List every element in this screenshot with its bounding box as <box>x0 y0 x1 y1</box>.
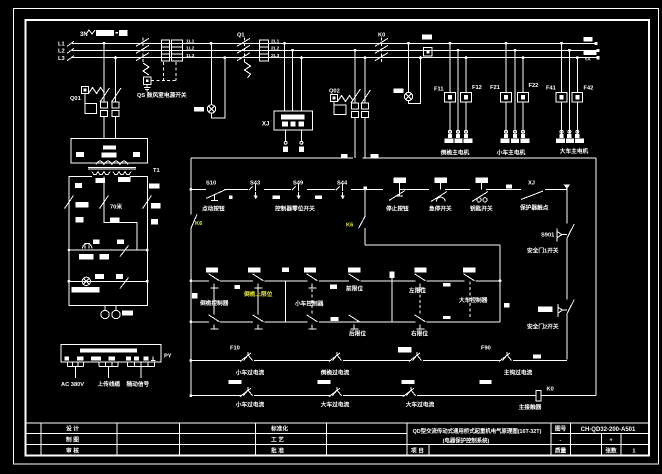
svg-text:XJ: XJ <box>262 122 269 128</box>
svg-text:F10: F10 <box>230 346 240 352</box>
svg-text:T1: T1 <box>153 168 160 174</box>
svg-text:F90: F90 <box>481 346 491 352</box>
Q02 coil box <box>331 95 338 102</box>
band left rail junctions <box>190 279 193 282</box>
control enclosure right rail <box>595 158 597 395</box>
svg-text:大车过电流: 大车过电流 <box>321 401 350 409</box>
POWERSECTION <box>58 30 600 157</box>
long label under lamp rail <box>72 287 100 293</box>
rail top tick <box>564 185 570 189</box>
svg-text:制 图: 制 图 <box>66 436 79 444</box>
svg-text:后限位: 后限位 <box>349 330 366 338</box>
T1 secondary windings <box>92 172 110 175</box>
fuse group FU2 <box>260 40 269 61</box>
emergency stop switch <box>435 178 448 184</box>
band switch pair x355 <box>348 267 360 329</box>
PY terminal comb 2 <box>99 362 118 378</box>
title block horizontal lines <box>26 423 650 445</box>
control enclosure top edge <box>191 157 596 159</box>
svg-text:保护器触点: 保护器触点 <box>519 204 549 212</box>
svg-text:图号: 图号 <box>555 425 567 433</box>
svg-text:S49: S49 <box>293 181 303 187</box>
overload relay F11 <box>445 93 456 102</box>
Q01 wires <box>104 43 116 138</box>
overload row B line <box>191 395 536 397</box>
svg-text:70米: 70米 <box>110 203 122 211</box>
meter box on line L2 <box>424 47 433 56</box>
controller unit PY box <box>61 345 161 363</box>
CONTROLSECTION <box>190 158 597 395</box>
svg-text:1L2: 1L2 <box>186 46 195 52</box>
svg-text:倒桅控制器: 倒桅控制器 <box>199 299 229 307</box>
svg-text:F42: F42 <box>584 86 594 92</box>
Q02 pole chevrons <box>352 103 369 118</box>
thermal contact A2 <box>329 352 342 362</box>
band switch pair x313 <box>304 267 318 329</box>
Q02 wires <box>355 50 365 158</box>
overload relay F22 <box>518 93 529 102</box>
ladder rung line <box>191 188 567 190</box>
transformer T1 primary <box>96 161 128 165</box>
mid branch jog wire <box>104 209 137 251</box>
safety door switch 2 <box>538 307 553 313</box>
overload relay F12 <box>461 93 472 102</box>
Q01 pole chevrons <box>101 102 120 117</box>
BOTTOMROWS <box>190 346 597 411</box>
svg-text:2L3: 2L3 <box>271 53 280 59</box>
band divider 3 <box>499 245 501 322</box>
svg-text:2L2: 2L2 <box>271 46 280 52</box>
QS linkage dashed <box>142 38 144 64</box>
svg-text:Q01: Q01 <box>70 96 81 102</box>
band small marker rects <box>192 293 198 298</box>
svg-text:L1: L1 <box>58 42 65 48</box>
svg-text:Q02: Q02 <box>329 89 340 95</box>
branch labels top <box>96 178 105 183</box>
svg-text:L2: L2 <box>58 49 65 55</box>
Q1 linkage dashed <box>244 38 246 63</box>
svg-text:倒桅过电流: 倒桅过电流 <box>320 369 350 377</box>
dashed link QS to fuses <box>151 62 177 81</box>
svg-text:大车过电流: 大车过电流 <box>406 401 435 409</box>
svg-text:S43: S43 <box>250 181 260 187</box>
phase line L3 <box>67 56 598 61</box>
svg-text:K0: K0 <box>378 33 385 39</box>
thermal contact A3 <box>409 352 422 362</box>
thermal contact B2 <box>329 387 342 397</box>
branch 2 terminals <box>500 130 529 143</box>
thermal contact A1 <box>240 352 253 362</box>
svg-text:控制器零位开关: 控制器零位开关 <box>275 205 315 213</box>
lighting circuit box top <box>69 177 147 306</box>
overload row A line <box>191 360 567 362</box>
svg-text:质量: 质量 <box>555 446 567 454</box>
Q01 coil box <box>82 87 89 94</box>
svg-text:项 目: 项 目 <box>411 446 424 454</box>
svg-text:CH-QD32-200-A501: CH-QD32-200-A501 <box>581 427 636 433</box>
svg-text:小车过电流: 小车过电流 <box>235 401 265 409</box>
relay contact K6 left <box>191 215 197 229</box>
title block vertical dividers <box>41 423 621 456</box>
svg-text:上传线缆: 上传线缆 <box>98 380 121 388</box>
svg-text:主钩过电流: 主钩过电流 <box>504 369 533 377</box>
lamp E1 <box>82 277 90 285</box>
PY terminal squares <box>64 357 148 361</box>
svg-text:K6: K6 <box>195 221 202 227</box>
Q02 spring <box>338 96 354 102</box>
label rect <box>315 196 322 199</box>
thermal contact B3 <box>403 387 416 397</box>
band divider 1 <box>285 281 287 322</box>
breaker Q1 blades <box>237 38 250 60</box>
PY ground pin <box>151 357 156 361</box>
thermal contact A4 <box>499 352 512 362</box>
svg-text:钥匙开关: 钥匙开关 <box>470 205 493 213</box>
control enclosure left rail <box>190 158 192 395</box>
svg-text:急停开关: 急停开关 <box>429 205 452 213</box>
disconnect switch QS blades <box>136 38 149 60</box>
svg-text:1: 1 <box>632 448 635 454</box>
svg-text:Q1: Q1 <box>237 33 245 39</box>
svg-text:AC 380V: AC 380V <box>61 382 84 388</box>
svg-text:1L1: 1L1 <box>186 39 195 45</box>
svg-text:审 核: 审 核 <box>66 446 79 454</box>
band switch pair x259 <box>248 267 264 329</box>
mid drop with K6 contact <box>359 189 500 244</box>
Q01 blades <box>100 88 121 102</box>
limit band bottom rail <box>191 321 500 323</box>
svg-text:S10: S10 <box>206 181 216 187</box>
svg-text:随动信号: 随动信号 <box>127 380 150 388</box>
row B label rects <box>229 380 242 384</box>
svg-text:PY: PY <box>164 354 172 360</box>
key switch <box>476 178 489 184</box>
overload relay F41 <box>556 93 567 102</box>
indicator lamp H1 left <box>194 43 225 118</box>
svg-text:标准化: 标准化 <box>270 425 288 433</box>
svg-text:(电器保护控制系统): (电器保护控制系统) <box>443 436 490 444</box>
junction dots on phase lines <box>103 42 600 60</box>
svg-text:批 准: 批 准 <box>271 446 284 454</box>
svg-text:停止按钮: 停止按钮 <box>386 205 409 213</box>
svg-text:QS 鼓风室电源开关: QS 鼓风室电源开关 <box>137 91 187 99</box>
fuse group FU1 <box>162 40 183 61</box>
relay box F1 <box>71 139 147 164</box>
ground symbol at QS <box>144 85 151 92</box>
Q02 blades <box>351 89 371 104</box>
XJ output terminals <box>286 130 302 141</box>
svg-text:安全门2开关: 安全门2开关 <box>527 323 559 331</box>
socket outlet symbol <box>104 306 106 311</box>
PY terminal comb 1 <box>67 362 83 378</box>
phase line L2 <box>67 48 598 53</box>
XJ feed wires <box>285 43 302 111</box>
svg-text:小车过电流: 小车过电流 <box>235 369 265 377</box>
svg-text:F22: F22 <box>529 83 539 89</box>
svg-text:S901: S901 <box>541 233 554 239</box>
svg-text:点动按钮: 点动按钮 <box>202 205 225 213</box>
switch blade on mid branch <box>100 196 109 209</box>
line end labels top right <box>584 37 593 42</box>
svg-text:设 计: 设 计 <box>66 425 79 433</box>
svg-text:张数: 张数 <box>605 446 617 454</box>
phase line L1 <box>67 41 596 46</box>
indicator lamp H2 right <box>394 43 421 103</box>
stop button <box>394 178 407 184</box>
relay XJ box <box>274 111 313 130</box>
LEFTCOLUMN <box>61 43 379 388</box>
motor branch 2 wires <box>506 43 523 133</box>
switch S7 on bell rail <box>120 246 129 257</box>
branch 3 terminals <box>556 130 584 143</box>
svg-text:左限位: 左限位 <box>408 287 426 295</box>
branch 1 terminals <box>444 130 472 143</box>
svg-text:2L1: 2L1 <box>271 39 280 45</box>
wire number tags above control box edge <box>341 154 348 159</box>
contactor coil K0 <box>536 390 541 401</box>
svg-text:倒桅主电机: 倒桅主电机 <box>440 148 470 156</box>
svg-text:-: - <box>560 438 562 444</box>
QS spring release <box>143 63 149 75</box>
svg-text:倒桅上限位: 倒桅上限位 <box>243 290 273 298</box>
current meter F0 white tag <box>422 35 432 40</box>
svg-text:QD型交流传动式通用桥式起重机电气原理图(16T-32T): QD型交流传动式通用桥式起重机电气原理图(16T-32T) <box>413 427 542 435</box>
motor branch 1 wires <box>450 43 466 133</box>
TITLEBLOCK <box>26 423 650 456</box>
svg-text:小车主电机: 小车主电机 <box>496 148 526 156</box>
Q1 spring <box>245 62 251 78</box>
svg-text:工 艺: 工 艺 <box>271 436 284 444</box>
switch blade on left branch <box>65 196 74 209</box>
QS trip box <box>144 77 152 85</box>
svg-text:YA: YA <box>585 56 592 62</box>
Q02 aux linkage box <box>333 102 335 106</box>
svg-text:F12: F12 <box>472 85 482 91</box>
label rect <box>272 196 280 199</box>
T1 core <box>88 167 136 169</box>
svg-text:大车控制器: 大车控制器 <box>459 296 488 304</box>
bell rail <box>69 249 147 251</box>
svg-text:小车控制器: 小车控制器 <box>294 300 324 308</box>
labels under bell rail <box>79 254 94 260</box>
wire tag on ladder <box>506 185 512 189</box>
svg-text:主接触器: 主接触器 <box>519 403 542 411</box>
K0 wire to right rail <box>541 395 596 397</box>
band switch x470 <box>463 267 475 319</box>
band divider 2 <box>391 272 393 322</box>
svg-text:XJ: XJ <box>528 181 535 187</box>
Q01 spring linkage <box>89 88 105 94</box>
switch blade on right branch <box>143 196 152 209</box>
PY terminal comb 3 <box>128 362 155 378</box>
thermal contact B1 <box>240 387 253 397</box>
Q01 aux linkage box <box>84 94 86 104</box>
svg-text:K6: K6 <box>346 223 353 229</box>
svg-text:安全门1开关: 安全门1开关 <box>527 247 559 255</box>
svg-text:前限位: 前限位 <box>346 285 363 293</box>
bell H3 <box>83 244 92 249</box>
svg-text:右限位: 右限位 <box>411 330 428 338</box>
ladder junction tag <box>364 186 367 190</box>
motor branch 3 wires <box>562 43 578 133</box>
svg-text:1L3: 1L3 <box>186 53 195 59</box>
overload relay F42 <box>572 93 583 102</box>
svg-text:F21: F21 <box>490 85 500 91</box>
band switch pair x215 <box>206 267 220 329</box>
svg-text:K0: K0 <box>547 387 554 393</box>
band switch pair x421 <box>414 267 426 329</box>
main contactor K0 poles on phase lines <box>375 38 388 60</box>
switch S0 on lamp rail <box>120 278 129 289</box>
svg-text:F11: F11 <box>434 86 444 92</box>
lamp rail <box>69 280 147 282</box>
svg-text:L3: L3 <box>58 56 65 62</box>
label rects left column <box>76 202 89 208</box>
right control rail <box>567 187 575 360</box>
limit band top rail <box>191 280 500 282</box>
PY display bar <box>80 348 137 352</box>
svg-text:F41: F41 <box>546 86 556 92</box>
overload relay F21 <box>501 93 512 102</box>
svg-text:大车主电机: 大车主电机 <box>560 147 589 155</box>
